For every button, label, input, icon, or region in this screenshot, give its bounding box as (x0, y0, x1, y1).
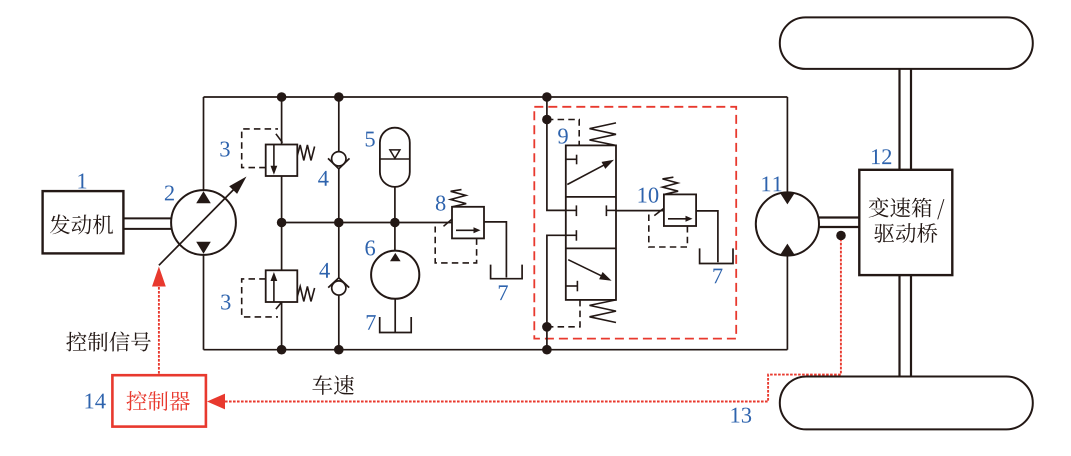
label 8 (436, 196, 446, 211)
text 控制信号 (66, 332, 150, 352)
wire check column upper (338, 97, 340, 152)
wheel top (780, 17, 1033, 69)
variable displacement pump 2 (159, 177, 247, 266)
label 10 (639, 188, 659, 203)
main circuit top bus (204, 96, 788, 98)
label 12 (872, 149, 891, 164)
label 3 upper (220, 142, 229, 157)
controller text 控制器 (127, 391, 190, 411)
wire check column middle (338, 169, 340, 278)
relief valve 3 lower pilot line (242, 279, 278, 317)
charge pump 6 (371, 223, 419, 333)
wire relief column middle (281, 176, 283, 270)
speed feedback dotted line (207, 240, 841, 409)
speed pickup node 13 (836, 231, 846, 241)
label 6 (365, 240, 375, 255)
valve 9 pilot top (547, 120, 579, 146)
label 7 pump6 (367, 315, 376, 330)
axle lower (900, 275, 912, 376)
junction dots valve9 pilots (542, 115, 552, 332)
check valve 4 lower (328, 278, 349, 295)
wire relief column bottom (281, 302, 283, 350)
junction dots middle bus (277, 218, 400, 228)
relief valve 3 upper pilot line (242, 129, 278, 168)
red dashed enclosure (534, 107, 736, 339)
label 11 (762, 176, 781, 191)
pressure valve 10 (663, 177, 697, 226)
tank 7 valve10 (700, 248, 733, 263)
shaft motor-gearbox (819, 218, 859, 228)
tank 7 valve8 (491, 265, 522, 279)
label 7 valve8 (499, 285, 508, 300)
valve 9 feed wire upper (547, 97, 566, 210)
valve 8 pilot line (435, 227, 476, 263)
right edge wire upper (motor inlet) (786, 97, 788, 193)
junction dots bottom bus (277, 345, 552, 355)
valve 8 outlet wire (484, 222, 506, 278)
tank 7 under pump 6 (380, 317, 412, 333)
label 13 (731, 408, 751, 423)
junction dots top bus (277, 92, 552, 102)
axle upper (900, 69, 912, 170)
label 5 (366, 132, 375, 147)
engine shaft (123, 218, 171, 229)
directional valve 9 body (566, 145, 616, 300)
engine text 发动机 (50, 214, 113, 234)
valve 9 spring bottom (590, 300, 617, 323)
label 3 lower (221, 295, 230, 310)
label 4 upper (318, 171, 328, 186)
label 1 (78, 174, 86, 189)
wheel bottom (780, 377, 1033, 430)
wire check column bottom (338, 295, 340, 350)
label 4 lower (319, 263, 329, 278)
wire valve9 to valve10 (616, 208, 664, 215)
label 7 valve10 (713, 269, 722, 284)
middle bus wire (282, 222, 452, 224)
label 9 (558, 129, 568, 144)
controller box 14 (112, 375, 205, 426)
right edge wire lower (motor outlet) (786, 255, 788, 349)
valve 10 pilot line (649, 215, 688, 248)
accumulator 5 (380, 128, 410, 223)
gearbox text line1 变速箱/ (869, 198, 945, 220)
hydraulic motor 11 (756, 192, 819, 255)
valve 9 feed wire lower (547, 235, 566, 349)
left edge wire lower (203, 255, 205, 350)
valve 9 spring top (590, 123, 617, 145)
wire relief column upper (281, 97, 283, 145)
engine box 1 (43, 191, 124, 253)
relief valve 3 lower (266, 270, 315, 309)
gearbox box 12 (859, 170, 952, 275)
label 14 (85, 394, 105, 409)
left edge wire upper (pump suction) (203, 97, 205, 190)
main circuit bottom bus (204, 349, 788, 351)
valve 9 pilot bottom (547, 300, 580, 327)
text 车速 (312, 375, 354, 395)
valve 10 outlet wire (696, 211, 718, 262)
label 2 (165, 186, 174, 201)
check valve 4 upper (328, 152, 350, 169)
gearbox text line2 驱动桥 (874, 223, 937, 243)
pressure valve 8 (444, 190, 485, 239)
relief valve 3 upper (266, 134, 315, 176)
control signal red arrow to pump (152, 267, 166, 376)
